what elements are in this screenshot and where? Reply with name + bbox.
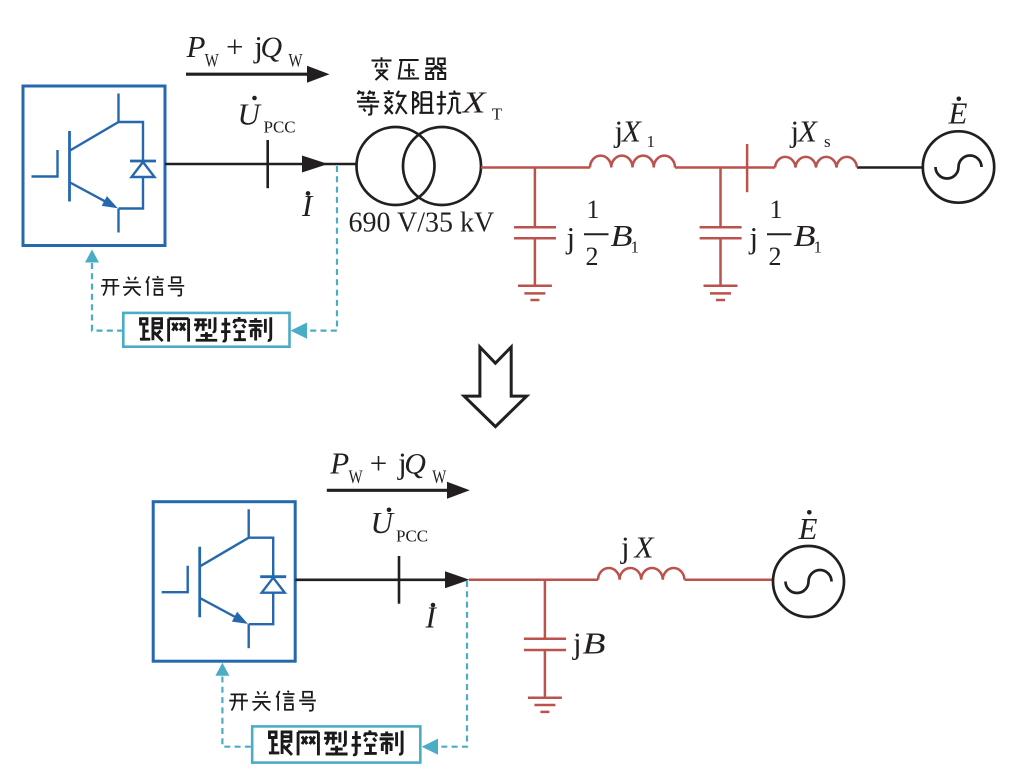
svg-text:W: W [432, 467, 446, 488]
svg-text:2: 2 [769, 242, 782, 271]
svg-text:X: X [620, 114, 642, 149]
svg-text:P: P [329, 446, 349, 481]
svg-text:Q: Q [261, 31, 283, 64]
svg-text:X: X [796, 114, 818, 149]
svg-text:U: U [238, 97, 263, 132]
svg-text:1: 1 [770, 195, 783, 224]
svg-text:j: j [572, 626, 582, 661]
svg-text:P: P [186, 29, 206, 64]
svg-text:T: T [492, 105, 503, 124]
svg-text:PCC: PCC [264, 118, 296, 137]
svg-text:W: W [289, 51, 303, 72]
svg-text:j: j [566, 220, 576, 255]
svg-text:E: E [948, 96, 968, 131]
svg-text:Q: Q [404, 448, 426, 481]
svg-text:1: 1 [631, 238, 640, 257]
svg-text:E: E [798, 511, 818, 546]
svg-text:B: B [794, 218, 816, 253]
svg-text:B: B [611, 218, 633, 253]
svg-text:1: 1 [647, 132, 656, 151]
svg-text:W: W [349, 467, 363, 488]
svg-text:+: + [370, 446, 387, 481]
svg-text:+: + [226, 29, 243, 64]
svg-text:j: j [749, 220, 759, 255]
svg-text:2: 2 [586, 242, 599, 271]
svg-text:PCC: PCC [396, 526, 428, 545]
svg-text:U: U [371, 505, 396, 540]
svg-text:X: X [460, 85, 487, 120]
svg-text:1: 1 [814, 238, 823, 257]
svg-text:s: s [824, 132, 831, 151]
svg-text:X: X [633, 530, 655, 565]
svg-text:W: W [205, 51, 219, 72]
svg-text:1: 1 [587, 195, 600, 224]
svg-text:690 V/35 kV: 690 V/35 kV [349, 207, 495, 238]
svg-text:B: B [583, 626, 606, 661]
svg-text:j: j [620, 530, 630, 565]
